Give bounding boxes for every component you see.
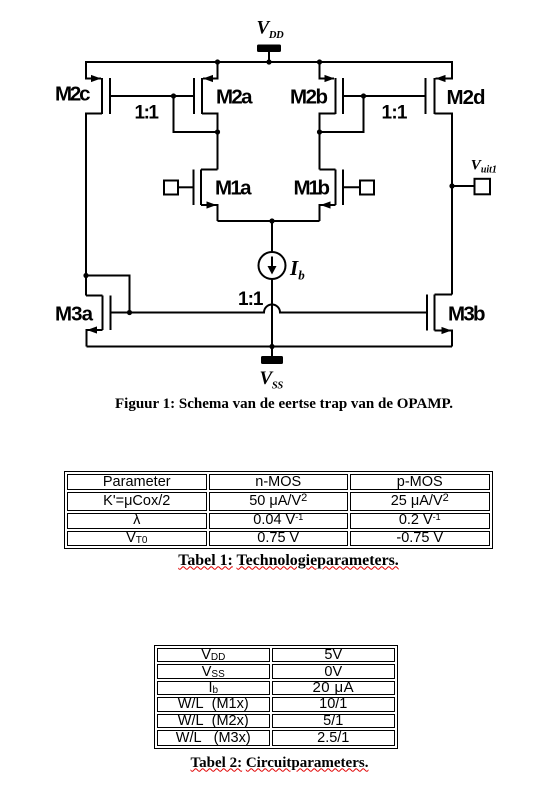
table 2 caption — [1, 755, 557, 772]
svg-text:M1a: M1a — [215, 177, 252, 200]
transistor M2a — [194, 62, 218, 114]
wire VDD top rail — [86, 61, 452, 63]
svg-text:M3a: M3a — [55, 303, 94, 326]
node VSS junction — [269, 344, 274, 349]
node gate right junction — [361, 93, 366, 98]
wire M2c drain / left rail — [86, 114, 102, 296]
svg-text:Vuit1: Vuit1 — [471, 157, 497, 175]
wire M2d drain / right rail — [435, 114, 453, 295]
wire VSS bottom rail — [87, 346, 453, 348]
table 2 circuit parameters — [154, 645, 398, 749]
svg-text:M1b: M1b — [294, 177, 331, 200]
node M2b source rail junction — [317, 59, 322, 64]
svg-text:M2c: M2c — [55, 83, 91, 106]
svg-text:M3b: M3b — [448, 302, 486, 325]
node tail junction — [269, 218, 274, 223]
transistor M2c — [86, 61, 110, 114]
svg-text:M2d: M2d — [447, 86, 486, 109]
power VDD bar — [257, 45, 281, 63]
svg-text:Ib: Ib — [289, 256, 305, 283]
transistor M2b — [320, 62, 344, 114]
power VSS bar — [261, 347, 283, 365]
svg-text:1:1: 1:1 — [382, 102, 408, 123]
wire M2a drain — [202, 114, 218, 170]
transistor M3a — [86, 296, 111, 347]
node M3 gate junction — [127, 310, 132, 315]
wire tail node — [218, 220, 320, 222]
node VDD stem junction — [266, 59, 271, 64]
table 1 technology parameters — [64, 471, 493, 549]
wire gate M2b-M2d — [343, 95, 426, 97]
wire M2b diode loop — [320, 96, 364, 132]
node gate left junction — [171, 93, 176, 98]
wire gate M2c-M2a — [110, 95, 194, 97]
wire M3a gate loop — [86, 276, 130, 313]
transistor M1a — [164, 170, 218, 222]
wire output — [452, 185, 475, 187]
svg-text:VSS: VSS — [260, 368, 284, 392]
node M2a drain junction — [215, 129, 220, 134]
svg-text:M2a: M2a — [216, 85, 253, 108]
node output junction — [449, 183, 454, 188]
node M2b drain junction — [317, 129, 322, 134]
current source Ib — [259, 221, 286, 347]
wire M2b drain — [320, 114, 336, 170]
svg-text:1:1: 1:1 — [238, 289, 264, 310]
svg-text:1:1: 1:1 — [135, 102, 160, 123]
node M3a drain tap — [83, 273, 88, 278]
svg-text:VDD: VDD — [257, 18, 285, 42]
wire gate M3a-M3b with hop — [111, 305, 428, 313]
transistor M3b — [427, 295, 452, 347]
transistor M1b — [320, 170, 375, 222]
figure caption — [0, 396, 557, 413]
pin output terminal — [475, 179, 491, 195]
svg-text:M2b: M2b — [290, 85, 328, 108]
wire M2a diode loop — [174, 96, 218, 132]
table 1 caption — [2, 552, 557, 570]
node M2a source rail junction — [215, 59, 220, 64]
transistor M2d — [426, 61, 453, 114]
